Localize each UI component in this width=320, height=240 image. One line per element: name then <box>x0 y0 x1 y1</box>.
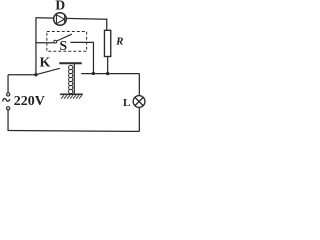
svg-text:D: D <box>55 0 65 13</box>
svg-text:R: R <box>115 35 123 47</box>
svg-text:220V: 220V <box>14 94 45 109</box>
svg-text:K: K <box>39 56 50 71</box>
svg-text:S: S <box>59 38 67 53</box>
svg-text:L: L <box>123 97 130 109</box>
